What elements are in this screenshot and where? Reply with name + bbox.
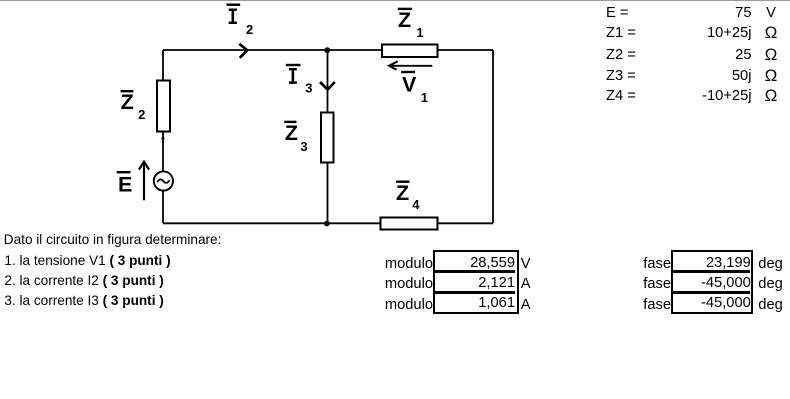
- svg-text:V: V: [402, 73, 417, 97]
- arrow: current I2 on top wire: [239, 44, 247, 58]
- circuit drawing: [0, 0, 560, 240]
- svg-text:Z: Z: [285, 121, 298, 145]
- modulo units: [521, 254, 531, 275]
- svg-text:4: 4: [412, 197, 420, 212]
- svg-text:1: 1: [416, 25, 423, 40]
- node: top junction: [324, 47, 330, 53]
- label Z4: [396, 181, 420, 213]
- item 3: [4, 291, 163, 312]
- wire: top horizontal: [163, 49, 493, 51]
- svg-text:1: 1: [421, 90, 428, 105]
- wire: left branch vertical: [162, 50, 164, 223]
- fase units: [758, 254, 783, 275]
- svg-text:2: 2: [246, 22, 253, 37]
- svg-text:3: 3: [305, 81, 312, 96]
- label V1: [401, 71, 428, 105]
- node: bottom junction: [324, 221, 330, 227]
- svg-text:Z: Z: [121, 90, 134, 114]
- top gridline: [0, 0, 790, 1]
- arrow: E direction: [139, 162, 149, 201]
- wire: right branch vertical: [492, 50, 494, 223]
- wire: middle branch vertical: [327, 50, 329, 223]
- problem statement: [4, 230, 222, 251]
- modulo value box: [433, 250, 519, 314]
- svg-text:E: E: [118, 172, 132, 196]
- label I3: [286, 64, 313, 96]
- label Z1: [398, 8, 424, 40]
- label Z2: [121, 90, 146, 122]
- fase value box: [671, 250, 753, 314]
- svg-text:3: 3: [300, 139, 307, 154]
- impedance Z1 (box): [382, 45, 438, 58]
- source E (AC source circle): [154, 171, 173, 190]
- svg-text:Z: Z: [398, 8, 411, 32]
- label E: [117, 171, 133, 196]
- item 1: [4, 251, 170, 272]
- item 2: [4, 271, 163, 292]
- impedance Z3 (box): [321, 113, 334, 163]
- arrow: current I3 on middle wire: [320, 82, 335, 90]
- modulo labels: [370, 254, 433, 275]
- svg-text:Z: Z: [396, 181, 409, 205]
- given-values table: [606, 2, 790, 106]
- impedance Z4 (box): [381, 218, 438, 230]
- label Z3: [284, 121, 307, 155]
- impedance Z2 (box): [157, 81, 170, 132]
- arrow: voltage V1 across Z1: [389, 61, 432, 70]
- wire: bottom horizontal: [163, 222, 493, 224]
- fase labels: [620, 254, 671, 275]
- svg-text:2: 2: [138, 107, 145, 122]
- label I2: [227, 4, 254, 38]
- node: left wire anchor: [162, 137, 165, 140]
